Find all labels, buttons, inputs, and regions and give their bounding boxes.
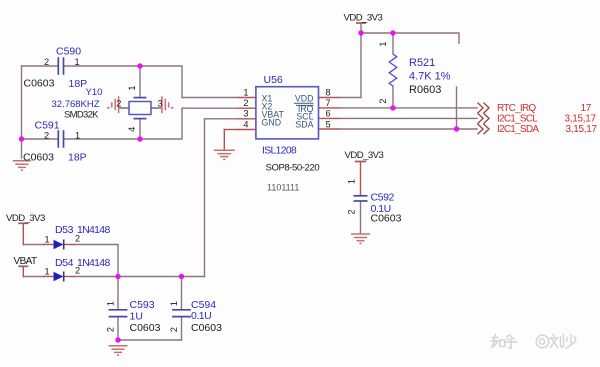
- svg-text:18P: 18P: [69, 78, 88, 90]
- svg-text:I2C1_SDA: I2C1_SDA: [497, 124, 539, 135]
- svg-text:1: 1: [169, 301, 179, 306]
- svg-text:C0603: C0603: [371, 213, 402, 225]
- svg-text:VDD_3V3: VDD_3V3: [6, 213, 45, 224]
- svg-text:3,15,17: 3,15,17: [565, 114, 597, 125]
- svg-text:C0603: C0603: [23, 152, 54, 164]
- svg-text:1: 1: [44, 267, 49, 277]
- svg-text:1: 1: [378, 41, 388, 46]
- svg-text:VDD_3V3: VDD_3V3: [344, 13, 383, 24]
- svg-text:R521: R521: [409, 57, 435, 69]
- svg-text:2: 2: [44, 57, 49, 67]
- svg-text:17: 17: [581, 103, 592, 114]
- svg-text:Y10: Y10: [86, 87, 103, 98]
- svg-text:C0603: C0603: [130, 322, 161, 334]
- svg-text:U56: U56: [264, 74, 283, 86]
- svg-text:1: 1: [44, 235, 49, 245]
- svg-text:3: 3: [157, 98, 162, 108]
- svg-text:2: 2: [75, 266, 80, 276]
- svg-text:SDA: SDA: [295, 120, 313, 130]
- svg-text:SOP8-50-220: SOP8-50-220: [266, 163, 320, 174]
- svg-text:6: 6: [326, 109, 331, 119]
- svg-text:5: 5: [326, 119, 331, 129]
- svg-text:1: 1: [243, 87, 248, 97]
- svg-text:8: 8: [326, 87, 331, 97]
- svg-text:D53: D53: [55, 224, 74, 236]
- svg-text:2: 2: [243, 98, 248, 108]
- svg-text:D54: D54: [55, 257, 74, 269]
- svg-text:7: 7: [326, 98, 331, 108]
- svg-text:4.7K 1%: 4.7K 1%: [409, 71, 451, 83]
- svg-text:1: 1: [106, 301, 116, 306]
- svg-text:C592: C592: [371, 192, 395, 204]
- svg-text:1: 1: [127, 85, 137, 90]
- svg-text:2: 2: [44, 130, 49, 140]
- svg-text:R0603: R0603: [409, 84, 441, 96]
- svg-text:3,15,17: 3,15,17: [566, 124, 598, 135]
- svg-text:1U: 1U: [130, 311, 143, 323]
- svg-text:2: 2: [116, 98, 121, 108]
- svg-text:1: 1: [74, 57, 79, 67]
- svg-text:3: 3: [243, 109, 248, 119]
- svg-text:ISL1208: ISL1208: [262, 146, 297, 157]
- svg-text:4: 4: [127, 127, 137, 132]
- svg-text:4: 4: [243, 119, 248, 129]
- svg-text:2: 2: [378, 98, 388, 103]
- svg-text:VDD: VDD: [295, 93, 314, 103]
- svg-text:1101111: 1101111: [267, 183, 299, 193]
- svg-text:GND: GND: [262, 118, 282, 128]
- svg-text:1N4148: 1N4148: [77, 224, 110, 236]
- svg-text:1: 1: [75, 130, 80, 140]
- svg-text:VBAT: VBAT: [14, 256, 37, 267]
- svg-text:C0603: C0603: [24, 78, 55, 90]
- svg-text:18P: 18P: [68, 152, 87, 164]
- svg-text:RTC_IRQ: RTC_IRQ: [497, 103, 536, 114]
- svg-text:2: 2: [106, 327, 116, 332]
- svg-text:1N4148: 1N4148: [77, 257, 110, 269]
- svg-text:C0603: C0603: [191, 322, 222, 334]
- svg-text:2: 2: [75, 234, 80, 244]
- svg-text:2: 2: [169, 327, 179, 332]
- svg-text:C590: C590: [56, 46, 81, 58]
- svg-text:VDD_3V3: VDD_3V3: [345, 150, 384, 161]
- svg-text:2: 2: [347, 209, 357, 214]
- svg-text:I2C1_SCL: I2C1_SCL: [497, 114, 538, 125]
- svg-text:0.1U: 0.1U: [191, 310, 211, 322]
- svg-text:SMD32K: SMD32K: [64, 109, 99, 120]
- svg-text:1: 1: [347, 179, 357, 184]
- svg-text:C593: C593: [130, 299, 155, 311]
